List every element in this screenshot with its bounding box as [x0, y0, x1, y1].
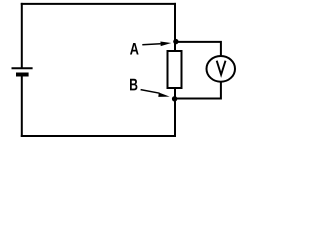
- wire left upper vertical: [21, 3, 23, 68]
- battery positive plate (long thin): [12, 67, 33, 69]
- wire right lower vertical: [174, 87, 176, 137]
- node B junction dot: [172, 96, 177, 101]
- voltmeter V1 body: [207, 56, 236, 82]
- label B: [130, 79, 137, 91]
- wire voltmeter branch top: [176, 42, 221, 57]
- wire right upper vertical: [174, 3, 176, 52]
- arrow to node A: [142, 42, 171, 47]
- wire left lower vertical: [21, 76, 23, 137]
- wire voltmeter branch bottom: [176, 81, 221, 99]
- battery negative plate (short thick): [16, 73, 29, 77]
- arrow to node B: [141, 90, 170, 97]
- node A junction dot: [173, 39, 178, 44]
- wire bottom horizontal: [21, 135, 176, 137]
- voltmeter V letter: [217, 61, 226, 75]
- label A: [130, 43, 139, 55]
- resistor body: [168, 51, 182, 88]
- wire top horizontal: [21, 3, 176, 5]
